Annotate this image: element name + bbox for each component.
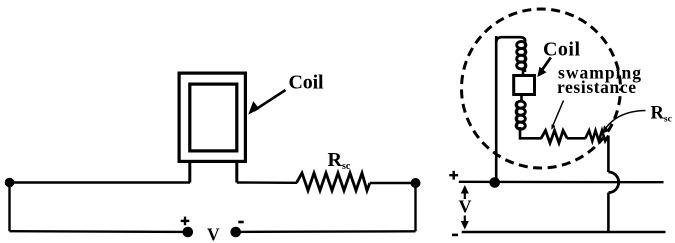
- wire top right horizontal: [370, 182, 416, 184]
- wire coil exit to resistor: [520, 127, 542, 138]
- resistor swamping (zigzag): [541, 131, 567, 144]
- coil winding inner rectangle: [190, 84, 237, 151]
- label plus (right figure): [449, 171, 458, 180]
- node C (dot on middle bus): [489, 177, 500, 188]
- label swamping resistance: [557, 63, 641, 97]
- wire right vertical: [414, 183, 416, 231]
- arrow from Coil label to coil: [248, 90, 285, 115]
- label plus (left figure): [181, 217, 190, 226]
- node A (left supply node dot): [5, 178, 15, 188]
- dashed circle enclosure: [462, 9, 621, 168]
- coil former outer rectangle: [179, 73, 245, 161]
- wire top horizontal to coil: [496, 37, 525, 43]
- wire bottom right horizontal: [236, 230, 416, 233]
- wire top middle horizontal: [237, 181, 297, 184]
- label minus (left figure): [238, 221, 243, 224]
- arrow from Coil label to swamping box: [537, 58, 551, 78]
- resistor Rsc (right figure zigzag): [585, 131, 608, 142]
- terminal dot minus (left figure): [230, 227, 241, 238]
- label minus (right figure): [452, 234, 458, 237]
- node B (right node dot): [411, 178, 421, 188]
- resistor Rsc (left figure): [297, 173, 370, 191]
- inductor lower winding: [516, 95, 525, 130]
- wire right vertical lower: [607, 193, 610, 232]
- svg-text:V: V: [459, 197, 472, 217]
- leader arrow from Rsc to resistor: [603, 111, 646, 134]
- terminal dot plus (left figure): [183, 227, 194, 238]
- svg-text:V: V: [207, 224, 220, 243]
- wire middle bus: [459, 181, 664, 184]
- svg-text:Rsc: Rsc: [651, 103, 672, 124]
- wire right vertical upper: [607, 136, 610, 173]
- wire hop over bus: [608, 172, 618, 193]
- svg-text:Coil: Coil: [289, 71, 324, 93]
- arrow V down: [461, 216, 469, 230]
- leader line to swamping resistor: [551, 101, 563, 130]
- wire coil right lead: [235, 161, 238, 183]
- wire between resistors: [567, 137, 586, 140]
- svg-text:resistance: resistance: [557, 77, 636, 97]
- wire top-left horizontal: [10, 181, 191, 183]
- wire left vertical riser: [495, 36, 498, 183]
- swamping resistance box: [514, 76, 535, 95]
- wire bottom left horizontal: [10, 230, 188, 233]
- svg-text:Coil: Coil: [543, 38, 580, 60]
- inductor upper winding: [517, 40, 526, 75]
- wire bottom bus: [462, 231, 666, 234]
- wire coil left lead: [188, 161, 191, 183]
- arrow V up: [461, 185, 469, 199]
- wire left vertical: [8, 183, 10, 232]
- svg-text:Rsc: Rsc: [328, 149, 351, 172]
